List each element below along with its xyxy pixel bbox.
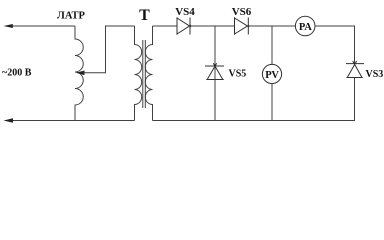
diode VS6 bbox=[235, 17, 250, 34]
wire: right branch down to VS3 bbox=[354, 26, 356, 64]
diode VS3 bbox=[346, 61, 364, 78]
wire: secondary top to VS4 bbox=[153, 25, 178, 27]
wire: VS5 branch from top rail bbox=[214, 26, 216, 121]
diode VS5 bbox=[205, 63, 224, 79]
voltmeter PV bbox=[262, 64, 281, 83]
wire: PV branch upper bbox=[271, 26, 273, 64]
ammeter PA bbox=[295, 16, 315, 36]
svg-text:ЛАТР: ЛАТР bbox=[57, 10, 85, 21]
autotransformer ЛАТР winding bbox=[75, 26, 83, 121]
svg-text:VS3: VS3 bbox=[366, 69, 384, 80]
wire: PA to right corner bbox=[315, 25, 355, 27]
wire: VS6 to ammeter PA bbox=[248, 25, 295, 27]
wire: bottom rail right segment bbox=[153, 120, 355, 122]
svg-text:PA: PA bbox=[299, 22, 312, 33]
arrowhead: AC input bottom bbox=[4, 118, 14, 122]
svg-text:VS5: VS5 bbox=[229, 68, 247, 79]
wire: wiper to primary top bbox=[84, 26, 135, 73]
wire: VS3 to bottom rail bbox=[354, 78, 356, 121]
transformer core bbox=[142, 40, 144, 108]
wire: PV branch lower bbox=[271, 84, 273, 121]
svg-text:VS6: VS6 bbox=[232, 6, 252, 18]
diode VS4 bbox=[177, 17, 191, 34]
svg-text:VS4: VS4 bbox=[175, 6, 195, 18]
svg-text:Т: Т bbox=[139, 7, 150, 24]
transformer T primary winding bbox=[135, 26, 142, 121]
LATR wiper arrow bbox=[76, 71, 85, 76]
arrowhead: AC input top bbox=[4, 24, 13, 28]
transformer T secondary winding bbox=[145, 26, 152, 121]
svg-text:~200 В: ~200 В bbox=[2, 68, 32, 79]
svg-text:PV: PV bbox=[265, 70, 279, 81]
wire: AC input top lead bbox=[11, 25, 75, 27]
wire: VS4 to VS6 (junction node at x=215) bbox=[190, 25, 235, 27]
wire: AC input bottom lead / bottom rail left segment bbox=[11, 120, 135, 122]
